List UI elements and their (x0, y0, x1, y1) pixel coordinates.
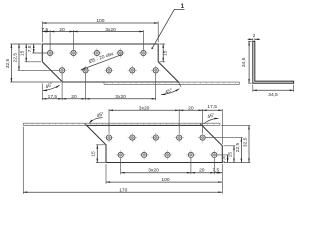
svg-text:45°: 45° (96, 111, 105, 119)
dimension row: 7,5 / 20 / 3x20 (top) (41, 27, 143, 50)
plate outline top view (42, 44, 178, 82)
svg-text:20: 20 (59, 27, 65, 33)
far flange edge strip (bottom view) (23, 123, 220, 125)
top dimension row: 3x20 / 20 / 17,5 (bottom view) (109, 104, 222, 144)
svg-text:20: 20 (199, 168, 205, 174)
45 degree note left (bottom view) (89, 111, 105, 123)
L profile outline (253, 41, 294, 83)
leader 1 (151, 3, 184, 49)
dimension 100 (top) (42, 18, 158, 42)
svg-text:22,5: 22,5 (235, 142, 241, 152)
svg-text:7,5: 7,5 (212, 167, 219, 173)
45 degree note (top view) (43, 82, 60, 91)
svg-text:17,5: 17,5 (207, 104, 217, 110)
strip hole ticks (bottom view) (26, 123, 213, 125)
svg-text:7,5: 7,5 (221, 156, 227, 163)
svg-text:45°: 45° (45, 82, 54, 91)
svg-text:34,5: 34,5 (241, 57, 247, 67)
15 dimension (left end, bottom view) (91, 145, 106, 163)
svg-text:22,5: 22,5 (12, 53, 18, 63)
45 degree note right (bottom view) (204, 112, 219, 124)
svg-text:34,5: 34,5 (268, 92, 278, 98)
svg-text:3x20: 3x20 (148, 168, 159, 174)
svg-text:32,5: 32,5 (5, 58, 11, 68)
svg-text:17,5: 17,5 (48, 94, 58, 100)
svg-text:3x20: 3x20 (115, 94, 126, 100)
svg-text:20: 20 (188, 105, 194, 111)
bottom dimension row: 17,5 / 20 / 3x20 (top view) (42, 73, 155, 100)
svg-text:20: 20 (71, 94, 77, 100)
svg-text:15: 15 (20, 50, 26, 56)
svg-text:7,5: 7,5 (27, 45, 33, 52)
bottom dimension row: 3x20 / 20 / 7,5 (bottom view) (121, 158, 223, 193)
svg-text:32,5: 32,5 (242, 137, 248, 147)
right dimension group: 7,5 / 15 / 22,5 / 32,5 (bottom view) (206, 125, 251, 163)
holes top row (bottom view) (104, 133, 207, 143)
left dimension group: 32,5 / 22,5 / 15 / 7,5 (5, 44, 61, 82)
far flange edge strip (top view) (104, 82, 240, 84)
svg-text:3x20: 3x20 (139, 105, 150, 111)
dimension 2 (thickness) (248, 33, 260, 41)
dimension 100 (bottom view) (106, 164, 222, 184)
dimension 170 (bottom view) (23, 127, 222, 194)
dimension 34,5 (vertical) (241, 41, 252, 83)
svg-text:100: 100 (96, 18, 104, 24)
hole note: diameter 5, 20 holes (81, 51, 122, 70)
holes row 2 (57, 66, 160, 76)
svg-text:7,5: 7,5 (41, 27, 48, 33)
svg-text:2: 2 (253, 33, 256, 39)
svg-text:170: 170 (119, 187, 127, 193)
15 dimension (right end, top view) (159, 44, 168, 62)
svg-text:15: 15 (162, 50, 168, 56)
strip hole ticks (107, 82, 236, 84)
holes row 1 (45, 48, 148, 58)
svg-text:15: 15 (91, 151, 97, 157)
svg-text:45°: 45° (164, 87, 173, 96)
dimension 34,5 (horizontal) (253, 85, 294, 98)
svg-text:15: 15 (227, 152, 233, 158)
svg-text:1: 1 (181, 3, 185, 10)
holes bottom row (bottom view) (116, 150, 219, 160)
svg-text:3x20: 3x20 (105, 27, 116, 33)
svg-text:100: 100 (161, 177, 169, 183)
L profile hole ticks (253, 47, 288, 83)
plate outline bottom view (87, 125, 223, 162)
45 degree note (top view right) (161, 82, 181, 96)
